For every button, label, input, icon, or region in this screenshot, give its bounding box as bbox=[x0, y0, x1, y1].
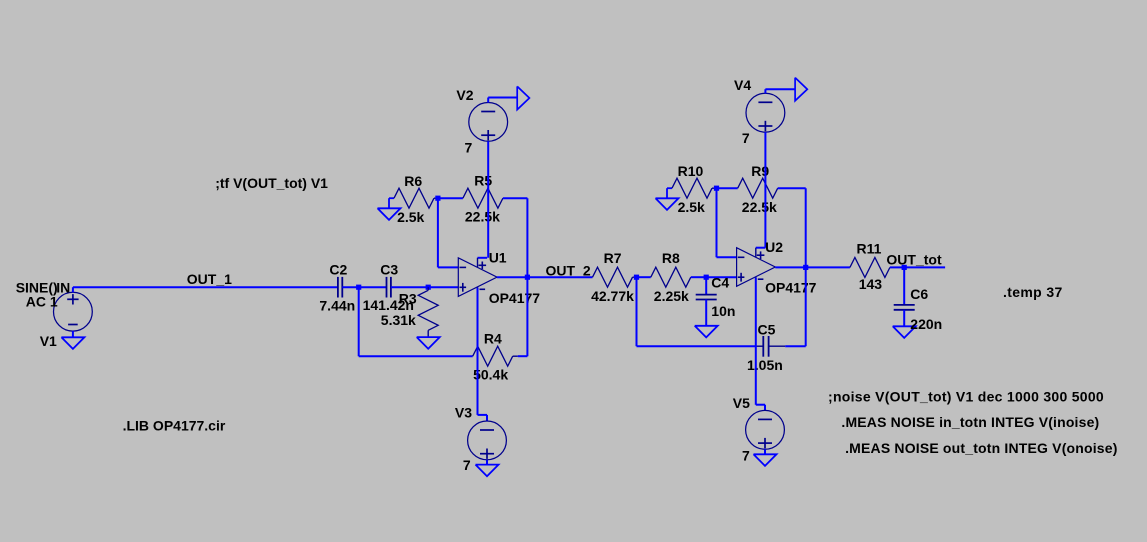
node FB2 junction bbox=[714, 186, 719, 191]
svg-text:R7: R7 bbox=[604, 250, 622, 266]
svg-text:R10: R10 bbox=[678, 163, 704, 179]
svg-text:7: 7 bbox=[742, 448, 750, 464]
capacitor C5 bbox=[756, 345, 763, 347]
ground at C6 bbox=[893, 326, 916, 338]
voltage source V2 bbox=[469, 103, 508, 142]
ground at V5 bbox=[764, 449, 766, 454]
svg-text:;tf V(OUT_tot) V1: ;tf V(OUT_tot) V1 bbox=[215, 175, 328, 191]
svg-text:R3: R3 bbox=[399, 290, 417, 306]
wire node B to U1 +in bbox=[428, 286, 458, 288]
svg-text:2.5k: 2.5k bbox=[397, 209, 424, 225]
wire node A down bbox=[358, 287, 360, 356]
wire OUT_tot tail bbox=[904, 266, 945, 268]
wire FB1 to U1 -in bbox=[437, 198, 439, 267]
wire U1 V- to V3 bbox=[477, 288, 479, 415]
wire U1 out bbox=[497, 276, 527, 278]
svg-text:C5: C5 bbox=[758, 322, 776, 338]
node FB1 junction bbox=[435, 196, 440, 201]
svg-text:C3: C3 bbox=[380, 261, 398, 277]
svg-text:2.25k: 2.25k bbox=[654, 288, 689, 304]
svg-text:7: 7 bbox=[742, 130, 750, 146]
resistor R4 bbox=[473, 346, 513, 366]
svg-text:;noise V(OUT_tot) V1 dec 1000: ;noise V(OUT_tot) V1 dec 1000 300 5000 bbox=[828, 389, 1104, 405]
svg-text:R5: R5 bbox=[474, 172, 492, 188]
svg-text:U2: U2 bbox=[765, 239, 783, 255]
svg-text:10n: 10n bbox=[711, 303, 735, 319]
ground at V1 bbox=[72, 331, 74, 337]
svg-text:R4: R4 bbox=[484, 331, 502, 347]
svg-text:.MEAS NOISE out_totn INTEG V(o: .MEAS NOISE out_totn INTEG V(onoise) bbox=[845, 440, 1117, 456]
svg-text:R8: R8 bbox=[662, 250, 680, 266]
wire U2 out to R11 bbox=[806, 266, 850, 268]
capacitor C6 bbox=[903, 267, 905, 305]
ground at C4 bbox=[695, 326, 718, 338]
svg-text:V4: V4 bbox=[734, 77, 751, 93]
wire node A to R4 bbox=[359, 355, 473, 357]
svg-text:OP4177: OP4177 bbox=[489, 290, 541, 306]
wire V4 to U2 V+ bbox=[764, 132, 766, 248]
ground at R10 bbox=[667, 187, 672, 189]
wire R9 to U2 out bbox=[805, 188, 807, 267]
svg-text:V1: V1 bbox=[40, 333, 57, 349]
node D junction bbox=[704, 275, 709, 280]
wire node A to C3 bbox=[359, 286, 387, 288]
node C junction bbox=[634, 275, 639, 280]
resistor R3 bbox=[427, 287, 429, 290]
voltage source V4 bbox=[746, 93, 785, 132]
resistor R10 bbox=[672, 178, 712, 198]
wire IN to C2 bbox=[73, 286, 338, 288]
net flag V+ at V2 bbox=[487, 98, 489, 103]
svg-text:22.5k: 22.5k bbox=[465, 208, 500, 224]
svg-text:U1: U1 bbox=[489, 249, 507, 265]
net flag V+ at V4 bbox=[764, 89, 766, 93]
svg-text:143: 143 bbox=[859, 276, 883, 292]
wire U2 out bbox=[775, 266, 805, 268]
svg-text:AC 1: AC 1 bbox=[26, 293, 58, 309]
svg-text:220n: 220n bbox=[910, 316, 942, 332]
resistor R5 bbox=[438, 197, 463, 199]
svg-text:.MEAS NOISE in_totn INTEG V(in: .MEAS NOISE in_totn INTEG V(inoise) bbox=[841, 414, 1099, 430]
voltage source V1 bbox=[54, 292, 93, 331]
wire FB2 to U2 -in bbox=[716, 188, 718, 257]
svg-text:C6: C6 bbox=[910, 286, 928, 302]
svg-text:R9: R9 bbox=[751, 163, 769, 179]
ground at R3 bbox=[417, 337, 440, 349]
wire out node down to C5 bbox=[805, 267, 807, 346]
wire node C to C5 bbox=[637, 345, 756, 347]
svg-text:R11: R11 bbox=[857, 241, 882, 257]
svg-text:22.5k: 22.5k bbox=[742, 199, 777, 215]
node OUT_tot junction bbox=[902, 265, 907, 270]
svg-text:V5: V5 bbox=[733, 395, 750, 411]
wire V1 top lead bbox=[72, 287, 74, 292]
voltage source V3 bbox=[468, 421, 507, 460]
svg-text:V2: V2 bbox=[456, 87, 473, 103]
voltage source V5 bbox=[746, 410, 785, 449]
node B junction bbox=[426, 285, 431, 290]
svg-text:7.44n: 7.44n bbox=[319, 297, 355, 313]
ground at R6 bbox=[389, 197, 394, 199]
svg-text:2.5k: 2.5k bbox=[678, 199, 705, 215]
svg-text:OUT_1: OUT_1 bbox=[187, 271, 232, 287]
wire V2 to U1 V+ bbox=[487, 141, 489, 257]
svg-text:OUT_tot: OUT_tot bbox=[886, 252, 942, 268]
svg-text:C4: C4 bbox=[711, 274, 729, 290]
wire U2 V- to V5 bbox=[755, 278, 757, 405]
svg-text:7: 7 bbox=[465, 140, 473, 156]
node OUT_2 junction bbox=[525, 275, 530, 280]
wire R4 to OUT_2 bbox=[526, 277, 528, 356]
svg-text:V3: V3 bbox=[455, 405, 472, 421]
wire C5 to out2 node bbox=[785, 345, 806, 347]
resistor R6 bbox=[394, 188, 434, 208]
ground at V3 bbox=[486, 460, 488, 465]
svg-text:.temp 37: .temp 37 bbox=[1003, 284, 1063, 300]
svg-text:7: 7 bbox=[463, 457, 471, 473]
svg-text:.LIB OP4177.cir: .LIB OP4177.cir bbox=[123, 418, 226, 434]
wire node D to U2 +in bbox=[706, 276, 736, 278]
svg-text:5.31k: 5.31k bbox=[381, 312, 416, 328]
capacitor C2 bbox=[337, 277, 339, 298]
wire OUT_2 to R7 bbox=[527, 276, 592, 278]
resistor R11 bbox=[850, 257, 890, 277]
capacitor C3 bbox=[386, 277, 388, 298]
svg-text:OP4177: OP4177 bbox=[765, 280, 817, 296]
svg-text:42.77k: 42.77k bbox=[591, 288, 634, 304]
svg-text:R6: R6 bbox=[404, 173, 422, 189]
svg-text:1.05n: 1.05n bbox=[747, 357, 783, 373]
wire C2 to node A bbox=[342, 286, 358, 288]
wire C3 to node B bbox=[391, 286, 428, 288]
op-amp U2 bbox=[737, 248, 776, 287]
node A junction bbox=[356, 285, 361, 290]
resistor R7 bbox=[593, 267, 633, 287]
svg-text:IN: IN bbox=[56, 279, 70, 295]
wire node C down bbox=[636, 277, 638, 346]
wire R5 to OUT_2 bbox=[526, 198, 528, 277]
node OUT2 junction bbox=[803, 265, 808, 270]
resistor R9 bbox=[717, 187, 738, 189]
svg-text:C2: C2 bbox=[329, 261, 347, 277]
capacitor C4 bbox=[705, 277, 707, 294]
resistor R8 bbox=[637, 276, 651, 278]
op-amp U1 bbox=[458, 258, 497, 297]
